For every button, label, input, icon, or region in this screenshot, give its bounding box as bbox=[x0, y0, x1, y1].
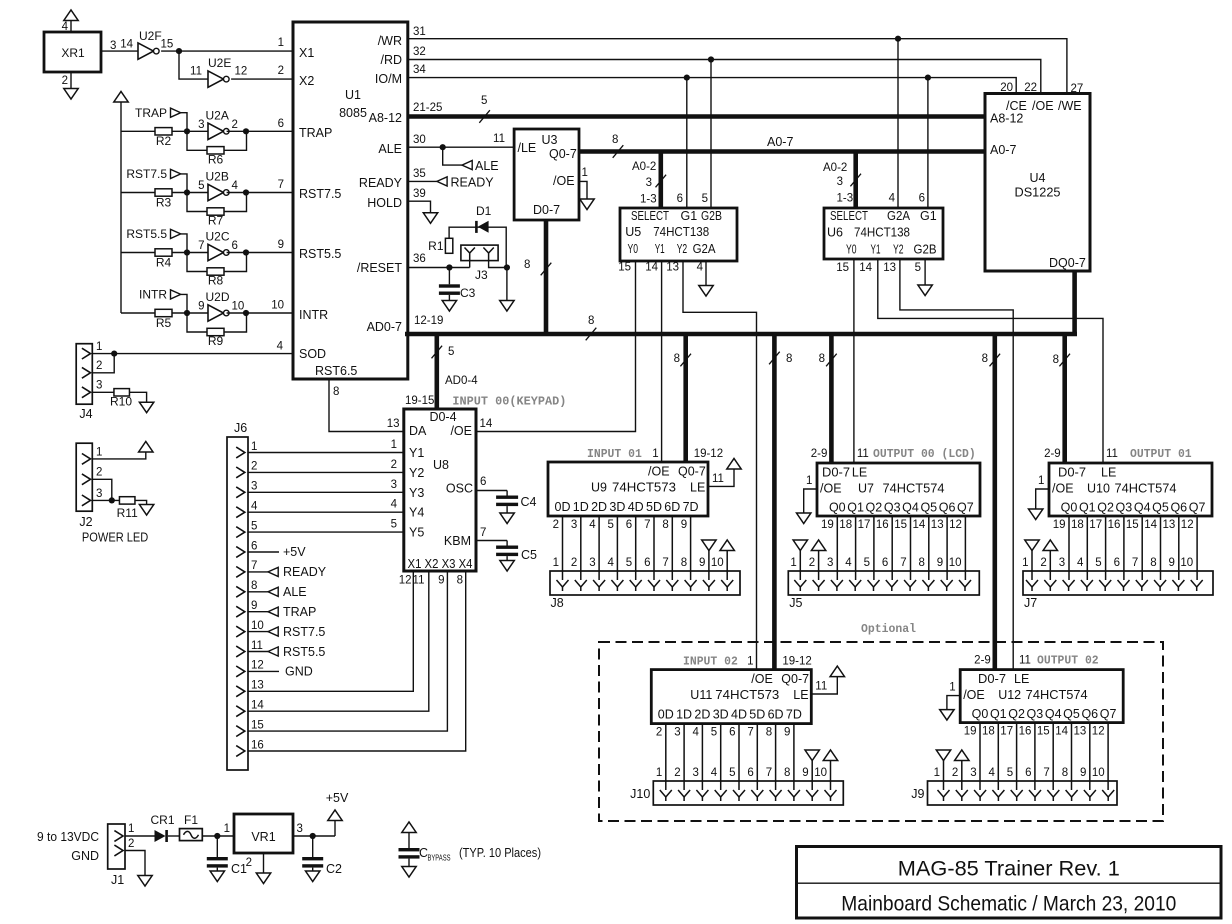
svg-text:1: 1 bbox=[278, 37, 284, 49]
svg-text:11: 11 bbox=[857, 448, 869, 460]
svg-text:KBM: KBM bbox=[444, 534, 471, 548]
svg-text:INPUT 02: INPUT 02 bbox=[683, 655, 738, 669]
svg-text:1: 1 bbox=[934, 767, 940, 779]
svg-text:7: 7 bbox=[662, 557, 668, 569]
svg-text:INPUT 01: INPUT 01 bbox=[587, 447, 642, 461]
svg-text:13: 13 bbox=[1163, 519, 1176, 531]
svg-text:U2E: U2E bbox=[208, 56, 231, 70]
svg-text:/RESET: /RESET bbox=[357, 261, 403, 275]
svg-text:U11: U11 bbox=[690, 688, 712, 702]
svg-text:13: 13 bbox=[883, 262, 896, 274]
svg-text:9: 9 bbox=[251, 600, 257, 612]
svg-text:Y5: Y5 bbox=[409, 526, 424, 540]
svg-text:Q6: Q6 bbox=[1081, 707, 1098, 721]
svg-text:AD0-7: AD0-7 bbox=[367, 320, 402, 334]
svg-text:J10: J10 bbox=[630, 787, 650, 801]
svg-text:11: 11 bbox=[413, 575, 425, 587]
svg-text:11: 11 bbox=[493, 133, 505, 145]
svg-text:Q0-7: Q0-7 bbox=[781, 672, 809, 686]
svg-text:14: 14 bbox=[859, 262, 872, 274]
svg-text:16: 16 bbox=[1108, 519, 1121, 531]
svg-text:6: 6 bbox=[919, 193, 925, 205]
svg-text:30: 30 bbox=[413, 134, 426, 146]
svg-text:13: 13 bbox=[666, 262, 679, 274]
svg-text:1: 1 bbox=[1038, 475, 1044, 487]
svg-text:0D: 0D bbox=[658, 708, 674, 722]
svg-text:4: 4 bbox=[692, 727, 699, 739]
svg-text:3D: 3D bbox=[713, 708, 729, 722]
svg-text:3: 3 bbox=[96, 380, 102, 392]
svg-text:Q6: Q6 bbox=[1170, 501, 1187, 515]
svg-text:6: 6 bbox=[677, 193, 683, 205]
svg-text:Q2: Q2 bbox=[1097, 501, 1114, 515]
svg-text:3: 3 bbox=[251, 481, 257, 493]
svg-text:34: 34 bbox=[413, 64, 426, 76]
svg-text:19-15: 19-15 bbox=[405, 395, 434, 407]
svg-text:5: 5 bbox=[729, 767, 735, 779]
svg-text:3: 3 bbox=[110, 40, 116, 52]
svg-text:Q5: Q5 bbox=[1063, 707, 1080, 721]
svg-text:8: 8 bbox=[982, 353, 988, 365]
svg-text:8: 8 bbox=[784, 767, 790, 779]
svg-text:D0-4: D0-4 bbox=[429, 410, 456, 424]
svg-text:2: 2 bbox=[1040, 557, 1046, 569]
svg-text:8: 8 bbox=[1062, 767, 1068, 779]
svg-text:U8: U8 bbox=[433, 458, 449, 472]
svg-text:Y1: Y1 bbox=[655, 242, 665, 256]
svg-text:RST5.5: RST5.5 bbox=[283, 645, 325, 659]
svg-text:10: 10 bbox=[711, 557, 724, 569]
svg-text:8: 8 bbox=[524, 259, 530, 271]
svg-text:3: 3 bbox=[297, 823, 303, 835]
svg-text:19-12: 19-12 bbox=[694, 448, 723, 460]
svg-text:6: 6 bbox=[251, 540, 257, 552]
svg-text:RST7.5: RST7.5 bbox=[283, 625, 325, 639]
svg-text:2D: 2D bbox=[694, 708, 710, 722]
svg-text:2: 2 bbox=[809, 557, 815, 569]
svg-text:5D: 5D bbox=[646, 500, 662, 514]
svg-text:4: 4 bbox=[232, 180, 239, 192]
svg-text:27: 27 bbox=[1071, 83, 1084, 95]
svg-text:Q1: Q1 bbox=[990, 707, 1007, 721]
svg-text:7: 7 bbox=[198, 240, 204, 252]
svg-text:1: 1 bbox=[747, 656, 753, 668]
svg-text:X2: X2 bbox=[299, 74, 314, 88]
svg-text:13: 13 bbox=[931, 519, 944, 531]
svg-text:3: 3 bbox=[827, 557, 833, 569]
svg-text:/OE: /OE bbox=[751, 672, 773, 686]
svg-text:8: 8 bbox=[457, 575, 463, 587]
svg-text:READY: READY bbox=[451, 176, 495, 190]
svg-text:17: 17 bbox=[1089, 519, 1102, 531]
svg-text:4: 4 bbox=[1077, 557, 1084, 569]
svg-text:4: 4 bbox=[589, 519, 596, 531]
svg-text:3D: 3D bbox=[609, 500, 625, 514]
svg-text:4: 4 bbox=[988, 767, 995, 779]
svg-text:1: 1 bbox=[652, 448, 658, 460]
svg-text:Y2: Y2 bbox=[893, 243, 904, 257]
svg-text:6: 6 bbox=[1025, 767, 1031, 779]
svg-text:DS1225: DS1225 bbox=[1015, 186, 1061, 200]
svg-text:6D: 6D bbox=[664, 500, 680, 514]
svg-text:3: 3 bbox=[589, 557, 595, 569]
svg-text:15: 15 bbox=[251, 719, 264, 731]
svg-text:A0-2: A0-2 bbox=[632, 161, 656, 173]
svg-text:LE: LE bbox=[690, 481, 705, 495]
svg-text:9: 9 bbox=[198, 301, 204, 313]
svg-text:8: 8 bbox=[662, 519, 668, 531]
svg-text:3: 3 bbox=[674, 727, 680, 739]
svg-text:IO/M: IO/M bbox=[375, 72, 402, 86]
svg-text:16: 16 bbox=[251, 739, 264, 751]
svg-text:1-3: 1-3 bbox=[640, 194, 657, 206]
svg-text:J8: J8 bbox=[551, 596, 564, 610]
svg-text:74HCT574: 74HCT574 bbox=[1115, 482, 1177, 496]
svg-text:2: 2 bbox=[952, 767, 958, 779]
svg-text:AD0-4: AD0-4 bbox=[445, 375, 478, 387]
svg-text:74HCT574: 74HCT574 bbox=[883, 482, 945, 496]
svg-text:X1 X2 X3 X4: X1 X2 X3 X4 bbox=[408, 557, 473, 571]
svg-text:Q0: Q0 bbox=[972, 707, 989, 721]
svg-text:U6: U6 bbox=[827, 226, 843, 240]
svg-text:Y2: Y2 bbox=[677, 242, 688, 256]
svg-text:2-9: 2-9 bbox=[811, 448, 828, 460]
svg-text:11: 11 bbox=[251, 640, 263, 652]
svg-text:1-3: 1-3 bbox=[837, 193, 854, 205]
svg-text:16: 16 bbox=[1019, 726, 1032, 738]
svg-text:R7: R7 bbox=[208, 214, 224, 228]
svg-text:7: 7 bbox=[1132, 557, 1138, 569]
svg-text:14: 14 bbox=[913, 519, 926, 531]
svg-text:7: 7 bbox=[900, 557, 906, 569]
svg-text:Q0: Q0 bbox=[829, 501, 846, 515]
svg-text:6: 6 bbox=[729, 727, 735, 739]
svg-text:32: 32 bbox=[413, 46, 426, 58]
svg-text:Q0-7: Q0-7 bbox=[549, 147, 577, 161]
svg-text:INPUT 00(KEYPAD): INPUT 00(KEYPAD) bbox=[452, 395, 566, 409]
svg-text:R2: R2 bbox=[156, 134, 172, 148]
svg-text:5: 5 bbox=[481, 95, 487, 107]
svg-text:D0-7: D0-7 bbox=[822, 466, 850, 480]
svg-text:Q4: Q4 bbox=[1134, 501, 1151, 515]
svg-text:Y1: Y1 bbox=[871, 243, 881, 257]
svg-text:1: 1 bbox=[553, 557, 559, 569]
svg-text:0D: 0D bbox=[555, 500, 571, 514]
svg-text:J7: J7 bbox=[1024, 596, 1037, 610]
svg-text:74HCT573: 74HCT573 bbox=[612, 481, 676, 495]
svg-text:XR1: XR1 bbox=[61, 46, 85, 60]
svg-text:9: 9 bbox=[1168, 557, 1174, 569]
svg-text:U3: U3 bbox=[542, 133, 558, 147]
svg-text:G1: G1 bbox=[681, 209, 698, 223]
svg-text:A8-12: A8-12 bbox=[369, 111, 402, 125]
svg-text:4: 4 bbox=[607, 557, 614, 569]
svg-text:A8-12: A8-12 bbox=[990, 112, 1023, 126]
svg-text:2D: 2D bbox=[591, 500, 607, 514]
svg-text:9: 9 bbox=[937, 557, 943, 569]
svg-text:4D: 4D bbox=[731, 708, 747, 722]
svg-text:Q2: Q2 bbox=[866, 501, 883, 515]
svg-text:8: 8 bbox=[588, 315, 594, 327]
svg-text:/OE: /OE bbox=[820, 482, 842, 496]
svg-text:RST5.5: RST5.5 bbox=[299, 247, 341, 261]
svg-text:R4: R4 bbox=[156, 255, 172, 269]
svg-text:14: 14 bbox=[645, 262, 658, 274]
svg-text:5: 5 bbox=[702, 193, 708, 205]
svg-text:11: 11 bbox=[815, 681, 827, 693]
svg-text:18: 18 bbox=[839, 519, 852, 531]
svg-text:U2F: U2F bbox=[139, 29, 162, 43]
svg-text:Q1: Q1 bbox=[1079, 501, 1096, 515]
svg-text:/RD: /RD bbox=[380, 53, 402, 67]
svg-text:R3: R3 bbox=[156, 195, 172, 209]
svg-text:1: 1 bbox=[251, 441, 257, 453]
svg-text:OSC: OSC bbox=[446, 482, 473, 496]
svg-text:7: 7 bbox=[766, 767, 772, 779]
svg-text:Q0-7: Q0-7 bbox=[678, 465, 706, 479]
svg-text:Y3: Y3 bbox=[409, 486, 424, 500]
svg-text:3: 3 bbox=[571, 519, 577, 531]
svg-text:DA: DA bbox=[409, 424, 427, 438]
svg-text:13: 13 bbox=[1074, 726, 1087, 738]
svg-text:36: 36 bbox=[413, 253, 426, 265]
svg-text:G1: G1 bbox=[920, 209, 937, 223]
svg-text:35: 35 bbox=[413, 168, 426, 180]
svg-text:R11: R11 bbox=[117, 506, 138, 520]
svg-text:1: 1 bbox=[806, 475, 812, 487]
svg-text:J3: J3 bbox=[475, 268, 488, 282]
svg-text:5: 5 bbox=[626, 557, 632, 569]
svg-text:17: 17 bbox=[858, 519, 871, 531]
svg-text:5: 5 bbox=[391, 519, 397, 531]
svg-text:3: 3 bbox=[96, 488, 102, 500]
svg-text:1D: 1D bbox=[573, 500, 589, 514]
svg-text:2: 2 bbox=[674, 767, 680, 779]
svg-text:8: 8 bbox=[1053, 354, 1059, 366]
svg-text:4: 4 bbox=[391, 499, 398, 511]
svg-text:10: 10 bbox=[232, 301, 245, 313]
svg-text:RST7.5: RST7.5 bbox=[299, 187, 341, 201]
svg-text:18: 18 bbox=[1071, 519, 1084, 531]
svg-text:18: 18 bbox=[982, 726, 995, 738]
svg-text:15: 15 bbox=[1126, 519, 1139, 531]
svg-text:7: 7 bbox=[747, 727, 753, 739]
svg-text:R9: R9 bbox=[208, 334, 224, 348]
svg-text:6: 6 bbox=[644, 557, 650, 569]
svg-text:74HCT573: 74HCT573 bbox=[715, 688, 779, 702]
svg-text:15: 15 bbox=[1037, 726, 1050, 738]
svg-text:G2A: G2A bbox=[693, 242, 717, 256]
svg-text:J9: J9 bbox=[911, 787, 924, 801]
svg-text:C4: C4 bbox=[521, 495, 537, 509]
svg-text:D0-7: D0-7 bbox=[533, 203, 560, 217]
svg-text:4: 4 bbox=[845, 557, 852, 569]
svg-text:C5: C5 bbox=[521, 548, 537, 562]
svg-text:3: 3 bbox=[391, 479, 397, 491]
svg-text:1: 1 bbox=[128, 823, 134, 835]
svg-text:7D: 7D bbox=[683, 500, 699, 514]
svg-text:14: 14 bbox=[251, 700, 264, 712]
svg-text:2: 2 bbox=[656, 727, 662, 739]
svg-text:VR1: VR1 bbox=[251, 830, 275, 844]
svg-text:U2A: U2A bbox=[206, 108, 229, 122]
svg-text:11: 11 bbox=[1106, 448, 1118, 460]
svg-text:5: 5 bbox=[607, 519, 613, 531]
svg-text:2: 2 bbox=[278, 65, 284, 77]
svg-text:LE: LE bbox=[793, 688, 808, 702]
svg-text:GND: GND bbox=[285, 665, 313, 679]
svg-text:U10: U10 bbox=[1087, 482, 1110, 496]
svg-text:/OE: /OE bbox=[450, 424, 472, 438]
svg-text:2: 2 bbox=[128, 838, 134, 850]
svg-text:1: 1 bbox=[391, 439, 397, 451]
svg-text:+5V: +5V bbox=[326, 791, 349, 805]
svg-text:21-25: 21-25 bbox=[413, 102, 442, 114]
svg-text:BYPASS: BYPASS bbox=[428, 854, 451, 863]
svg-text:6: 6 bbox=[232, 240, 238, 252]
svg-text:15: 15 bbox=[161, 39, 174, 51]
svg-text:4: 4 bbox=[697, 262, 704, 274]
svg-text:OUTPUT 02: OUTPUT 02 bbox=[1037, 654, 1099, 668]
svg-text:8085: 8085 bbox=[339, 106, 367, 120]
svg-text:39: 39 bbox=[413, 188, 426, 200]
svg-text:5: 5 bbox=[864, 557, 870, 569]
svg-text:6: 6 bbox=[626, 519, 632, 531]
svg-text:ALE: ALE bbox=[283, 585, 307, 599]
svg-text:Q7: Q7 bbox=[1189, 501, 1206, 515]
svg-text:11: 11 bbox=[1019, 655, 1031, 667]
svg-text:11: 11 bbox=[712, 473, 724, 485]
svg-text:2: 2 bbox=[96, 467, 102, 479]
svg-text:8: 8 bbox=[333, 386, 339, 398]
svg-text:SELECT: SELECT bbox=[631, 209, 669, 223]
svg-text:5: 5 bbox=[1007, 767, 1013, 779]
svg-text:Y0: Y0 bbox=[628, 242, 639, 256]
svg-text:Q7: Q7 bbox=[1100, 707, 1117, 721]
svg-text:SELECT: SELECT bbox=[830, 209, 868, 223]
svg-text:7: 7 bbox=[278, 179, 284, 191]
svg-text:G2B: G2B bbox=[701, 209, 722, 223]
svg-text:12: 12 bbox=[1092, 726, 1105, 738]
svg-text:U1: U1 bbox=[345, 88, 361, 102]
svg-text:8: 8 bbox=[786, 353, 792, 365]
svg-text:CR1: CR1 bbox=[150, 813, 174, 827]
svg-text:1: 1 bbox=[656, 767, 662, 779]
svg-text:Q2: Q2 bbox=[1008, 707, 1025, 721]
svg-text:9: 9 bbox=[784, 727, 790, 739]
svg-text:14: 14 bbox=[480, 418, 493, 430]
svg-text:7: 7 bbox=[480, 527, 486, 539]
svg-text:6: 6 bbox=[480, 476, 486, 488]
svg-text:DQ0-7: DQ0-7 bbox=[1049, 256, 1086, 270]
svg-text:10: 10 bbox=[1180, 557, 1193, 569]
svg-text:R10: R10 bbox=[110, 395, 132, 409]
svg-text:U2C: U2C bbox=[206, 230, 230, 244]
svg-text:Q3: Q3 bbox=[884, 501, 901, 515]
svg-text:U9: U9 bbox=[591, 481, 607, 495]
svg-text:12-19: 12-19 bbox=[414, 315, 443, 327]
svg-text:5: 5 bbox=[1095, 557, 1101, 569]
svg-text:8: 8 bbox=[674, 353, 680, 365]
svg-text:R5: R5 bbox=[156, 316, 172, 330]
svg-text:31: 31 bbox=[413, 26, 426, 38]
svg-text:10: 10 bbox=[814, 767, 827, 779]
svg-text:6: 6 bbox=[1114, 557, 1120, 569]
svg-text:12: 12 bbox=[1181, 519, 1194, 531]
svg-text:/OE: /OE bbox=[648, 465, 670, 479]
svg-text:9 to 13VDC: 9 to 13VDC bbox=[37, 830, 99, 844]
svg-text:1: 1 bbox=[1022, 557, 1028, 569]
svg-text:9: 9 bbox=[699, 557, 705, 569]
svg-text:10: 10 bbox=[251, 620, 264, 632]
svg-text:10: 10 bbox=[271, 300, 284, 312]
svg-text:14: 14 bbox=[1055, 726, 1068, 738]
svg-text:X1: X1 bbox=[299, 46, 314, 60]
svg-text:Y2: Y2 bbox=[409, 466, 424, 480]
svg-text:J1: J1 bbox=[111, 873, 124, 887]
svg-text:8: 8 bbox=[819, 353, 825, 365]
svg-text:J2: J2 bbox=[79, 515, 92, 529]
svg-text:5D: 5D bbox=[749, 708, 765, 722]
svg-text:8: 8 bbox=[918, 557, 924, 569]
svg-text:8: 8 bbox=[251, 580, 257, 592]
svg-text:Q6: Q6 bbox=[939, 501, 956, 515]
svg-text:INTR: INTR bbox=[139, 288, 167, 302]
svg-text:(TYP. 10 Places): (TYP. 10 Places) bbox=[459, 846, 541, 860]
svg-text:/OE: /OE bbox=[1052, 482, 1074, 496]
svg-text:8: 8 bbox=[612, 134, 618, 146]
svg-text:LE: LE bbox=[852, 466, 867, 480]
svg-text:U2B: U2B bbox=[206, 170, 229, 184]
svg-text:Y0: Y0 bbox=[846, 243, 857, 257]
svg-text:8: 8 bbox=[766, 727, 772, 739]
svg-text:2: 2 bbox=[251, 461, 257, 473]
svg-text:G2A: G2A bbox=[887, 209, 911, 223]
svg-text:4: 4 bbox=[889, 193, 896, 205]
svg-text:1: 1 bbox=[582, 167, 588, 179]
svg-text:U4: U4 bbox=[1030, 171, 1046, 185]
svg-text:MAG-85 Trainer Rev. 1: MAG-85 Trainer Rev. 1 bbox=[898, 858, 1120, 881]
svg-text:Q5: Q5 bbox=[920, 501, 937, 515]
svg-text:2: 2 bbox=[553, 519, 559, 531]
svg-text:8: 8 bbox=[681, 557, 687, 569]
svg-text:ALE: ALE bbox=[475, 159, 499, 173]
svg-text:A0-7: A0-7 bbox=[990, 143, 1016, 157]
svg-text:5: 5 bbox=[915, 262, 921, 274]
svg-text:/OE: /OE bbox=[963, 688, 985, 702]
svg-text:4: 4 bbox=[277, 341, 284, 353]
svg-text:6: 6 bbox=[747, 767, 753, 779]
svg-text:J6: J6 bbox=[234, 421, 247, 435]
svg-text:10: 10 bbox=[1092, 767, 1105, 779]
svg-text:Q7: Q7 bbox=[957, 501, 974, 515]
svg-text:9: 9 bbox=[438, 575, 444, 587]
svg-text:R8: R8 bbox=[208, 274, 224, 288]
svg-text:3: 3 bbox=[646, 177, 652, 189]
svg-text:POWER LED: POWER LED bbox=[82, 531, 148, 545]
svg-text:2-9: 2-9 bbox=[974, 655, 991, 667]
svg-text:1: 1 bbox=[96, 446, 102, 458]
svg-text:C2: C2 bbox=[326, 862, 342, 876]
svg-text:12: 12 bbox=[235, 66, 248, 78]
svg-text:A0-2: A0-2 bbox=[823, 162, 847, 174]
svg-text:11: 11 bbox=[190, 66, 202, 78]
svg-text:1: 1 bbox=[96, 341, 102, 353]
svg-text:R1: R1 bbox=[428, 239, 444, 253]
svg-text:/WE: /WE bbox=[1058, 99, 1082, 113]
svg-text:10: 10 bbox=[949, 557, 962, 569]
svg-text:D0-7: D0-7 bbox=[978, 672, 1006, 686]
